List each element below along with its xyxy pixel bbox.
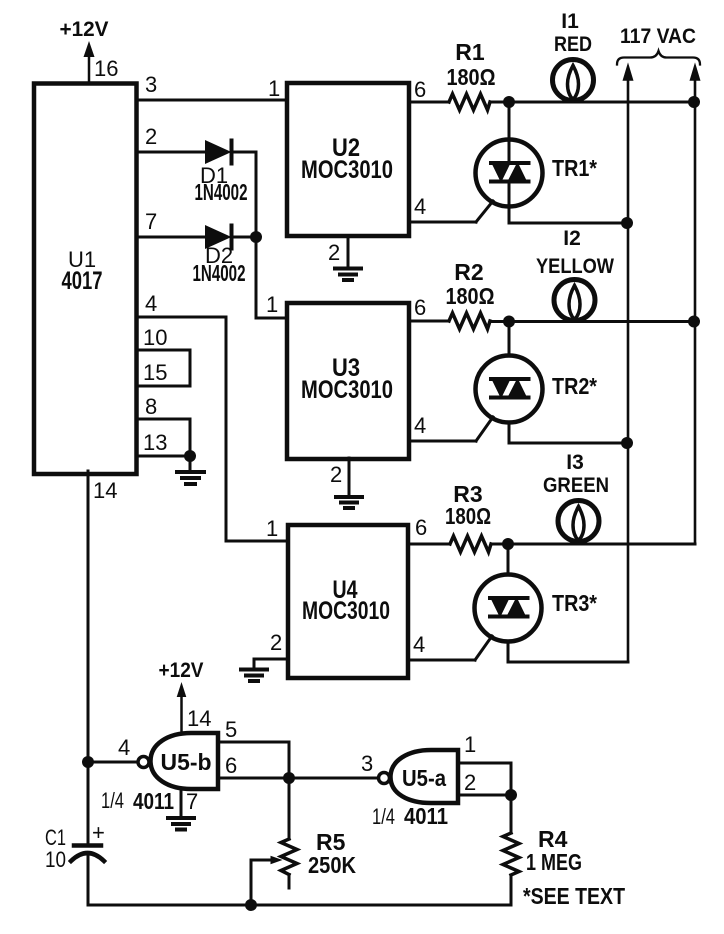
- svg-text:TR1*: TR1*: [552, 155, 597, 181]
- svg-text:1: 1: [266, 516, 278, 541]
- wire R3 to lamp I3 and AC line: [491, 543, 695, 546]
- svg-text:14: 14: [187, 706, 211, 731]
- svg-text:250K: 250K: [308, 852, 356, 878]
- svg-text:MOC3010: MOC3010: [302, 597, 390, 625]
- svg-text:1: 1: [268, 76, 280, 101]
- wire U5-a pin 1: [458, 763, 511, 795]
- svg-text:TR2*: TR2*: [552, 373, 597, 399]
- ground (U3 pin 2): [336, 497, 362, 508]
- svg-text:4011: 4011: [133, 788, 174, 814]
- wire U1 pin 3 to U2 pin 1: [137, 99, 287, 102]
- ground (U4 pin 2): [241, 670, 267, 682]
- wire U5-b pin 5: [218, 742, 289, 778]
- node R3/TR3 junction: [502, 538, 514, 550]
- svg-text:4: 4: [118, 735, 130, 760]
- svg-text:1: 1: [266, 292, 278, 317]
- svg-text:16: 16: [94, 56, 118, 81]
- wire TR1 gate diagonal: [476, 201, 493, 222]
- diode D2 1N4002: [193, 226, 246, 287]
- wire U2 pin 2 stub: [347, 236, 350, 267]
- svg-text:+: +: [92, 820, 105, 845]
- svg-text:R1: R1: [455, 39, 485, 65]
- svg-text:13: 13: [143, 430, 167, 455]
- wire U5-a pin 2: [458, 794, 511, 797]
- svg-text:1N4002: 1N4002: [195, 179, 248, 205]
- svg-text:R2: R2: [454, 259, 483, 285]
- resistor R3 180ohm: [445, 481, 491, 552]
- node wiper/bottom-rail junction: [245, 899, 257, 911]
- wire TR3 bottom to left AC line: [508, 661, 628, 664]
- svg-text:7: 7: [186, 789, 198, 814]
- wire U1 pin 2 to D1: [137, 151, 206, 154]
- node TR1 left AC junction: [621, 217, 633, 229]
- svg-text:1/4: 1/4: [101, 788, 124, 813]
- resistor R1 180ohm: [447, 39, 496, 110]
- triac TR3: [475, 544, 598, 662]
- wire U1 pin 14 down to U5-b node: [87, 471, 90, 762]
- wire U3 pin 4 to gate: [409, 440, 476, 443]
- wire bottom rail: [88, 904, 511, 907]
- svg-text:MOC3010: MOC3010: [301, 156, 393, 184]
- AC line left (arrow + vertical): [624, 65, 633, 662]
- svg-text:1 MEG: 1 MEG: [526, 849, 582, 875]
- wire TR2 bottom to left AC line: [509, 442, 627, 445]
- svg-text:1N4002: 1N4002: [193, 260, 246, 286]
- wire TR1 bottom to left AC line: [509, 222, 627, 225]
- svg-text:15: 15: [143, 360, 167, 385]
- svg-text:4: 4: [414, 413, 426, 438]
- wire U1 pins 8-13 tie: [137, 419, 190, 456]
- wire U4 pin 6 to R3: [408, 543, 450, 546]
- svg-text:4: 4: [414, 194, 426, 219]
- svg-text:2: 2: [464, 770, 476, 795]
- svg-text:3: 3: [361, 751, 373, 776]
- svg-text:1: 1: [464, 732, 476, 757]
- svg-text:6: 6: [415, 515, 427, 540]
- node pins1-2/R4 junction: [505, 789, 517, 801]
- node pin5/pin6/R5 junction: [283, 772, 295, 784]
- svg-text:180Ω: 180Ω: [446, 283, 495, 309]
- wire U5-b pin 6 to U5-a input: [218, 777, 378, 780]
- svg-text:4017: 4017: [62, 267, 103, 295]
- capacitor C1 10uF: [45, 762, 105, 905]
- svg-text:I2: I2: [563, 227, 581, 250]
- wire D1 cathode to junction: [233, 151, 256, 154]
- optocoupler U4 MOC3010: [288, 525, 408, 678]
- lamp I1 RED: [553, 10, 594, 101]
- wire D2 cathode to junction: [233, 236, 256, 239]
- svg-text:8: 8: [145, 394, 157, 419]
- node R2/TR2 junction: [503, 316, 515, 328]
- power +12V (U5-b pin 14): [159, 659, 204, 733]
- nand gate U5-b 4011 (mirrored): [138, 733, 218, 789]
- svg-text:10: 10: [143, 325, 167, 350]
- ground (U5-b pin 7): [168, 818, 194, 830]
- wire U1 pins 10-15 tie loop: [137, 350, 190, 386]
- nand gate U5-a 4011 (mirrored): [379, 750, 459, 803]
- node lamp I2 right AC junction: [688, 316, 700, 328]
- svg-text:180Ω: 180Ω: [445, 503, 491, 529]
- svg-text:117 VAC: 117 VAC: [620, 25, 696, 48]
- svg-text:10: 10: [45, 847, 66, 872]
- svg-text:6: 6: [225, 753, 237, 778]
- wire U1 pin 4 to U4 pin 1: [137, 317, 288, 541]
- wire TR3 gate diagonal: [475, 636, 492, 660]
- optocoupler U3 MOC3010: [287, 303, 409, 459]
- svg-text:6: 6: [414, 295, 426, 320]
- triac TR1: [476, 102, 598, 223]
- node R1/TR1 junction: [503, 96, 515, 108]
- svg-text:TR3*: TR3*: [552, 590, 597, 616]
- svg-text:GREEN: GREEN: [543, 474, 609, 497]
- svg-text:YELLOW: YELLOW: [536, 255, 614, 278]
- svg-text:4: 4: [413, 632, 425, 657]
- svg-text:14: 14: [93, 478, 117, 503]
- svg-text:2: 2: [328, 240, 340, 265]
- svg-text:+12V: +12V: [60, 18, 109, 41]
- wire R2 to lamp I2 and AC line: [490, 320, 694, 323]
- wire U4 pin 2 stub: [254, 659, 288, 668]
- wire U5-b output (pin 4) to node: [88, 761, 138, 764]
- wire U5-b pin 7 stub: [180, 789, 183, 816]
- svg-text:4: 4: [145, 291, 157, 316]
- optocoupler U2 MOC3010: [287, 83, 409, 236]
- ground (U1 pins 8/13): [177, 456, 204, 484]
- svg-text:I3: I3: [566, 451, 584, 474]
- wire TR2 gate diagonal: [476, 417, 493, 441]
- svg-text:6: 6: [414, 77, 426, 102]
- wire R1 to lamp I1 and AC line: [490, 101, 694, 104]
- wire U2 pin 4 to gate: [409, 221, 476, 224]
- svg-text:U5-b: U5-b: [161, 749, 212, 775]
- wire U3 pin 6 to R2: [409, 320, 449, 323]
- node diode junction: [250, 231, 262, 243]
- node pin13 junction: [184, 450, 196, 462]
- IC U1 4017: [34, 84, 137, 475]
- AC line right (arrow + vertical): [691, 65, 700, 544]
- resistor R2 180ohm: [446, 259, 495, 329]
- svg-text:*SEE TEXT: *SEE TEXT: [523, 883, 625, 909]
- svg-text:2: 2: [330, 462, 342, 487]
- svg-text:I1: I1: [561, 10, 579, 33]
- wire U1 pin 7 to D2: [137, 236, 206, 239]
- wire U3 pin 2 stub: [348, 458, 351, 495]
- wire R5 wiper: [251, 857, 281, 906]
- svg-text:2: 2: [145, 124, 157, 149]
- brace 117 VAC: [617, 51, 700, 65]
- triac TR2: [476, 322, 598, 444]
- svg-text:+12V: +12V: [159, 659, 204, 682]
- potentiometer R5 250K: [281, 778, 356, 888]
- node lamp I1 right AC junction: [688, 96, 700, 108]
- svg-text:2: 2: [270, 630, 282, 655]
- node U1 pin14 / U5-b junction: [82, 756, 94, 768]
- wire U4 pin 4 to gate: [408, 659, 475, 662]
- svg-text:RED: RED: [554, 33, 592, 56]
- svg-text:7: 7: [145, 209, 157, 234]
- svg-text:5: 5: [225, 717, 237, 742]
- svg-text:U5-a: U5-a: [402, 765, 446, 791]
- lamp I3 GREEN: [543, 451, 609, 542]
- power +12V (U1 pin 16): [60, 18, 109, 82]
- node TR2 left AC junction: [621, 437, 633, 449]
- wire U2 pin 6 to R1: [409, 101, 449, 104]
- resistor R4 1 MEG: [503, 795, 582, 905]
- svg-text:4011: 4011: [404, 803, 448, 829]
- svg-text:180Ω: 180Ω: [447, 64, 496, 90]
- svg-text:1/4: 1/4: [372, 804, 395, 829]
- svg-text:3: 3: [145, 72, 157, 97]
- svg-text:MOC3010: MOC3010: [301, 376, 393, 404]
- wire diode bus down to U3 pin 1: [256, 152, 287, 318]
- ground (U2 pin 2): [335, 269, 361, 281]
- lamp I2 YELLOW: [536, 227, 614, 321]
- diode D1 1N4002: [195, 141, 248, 206]
